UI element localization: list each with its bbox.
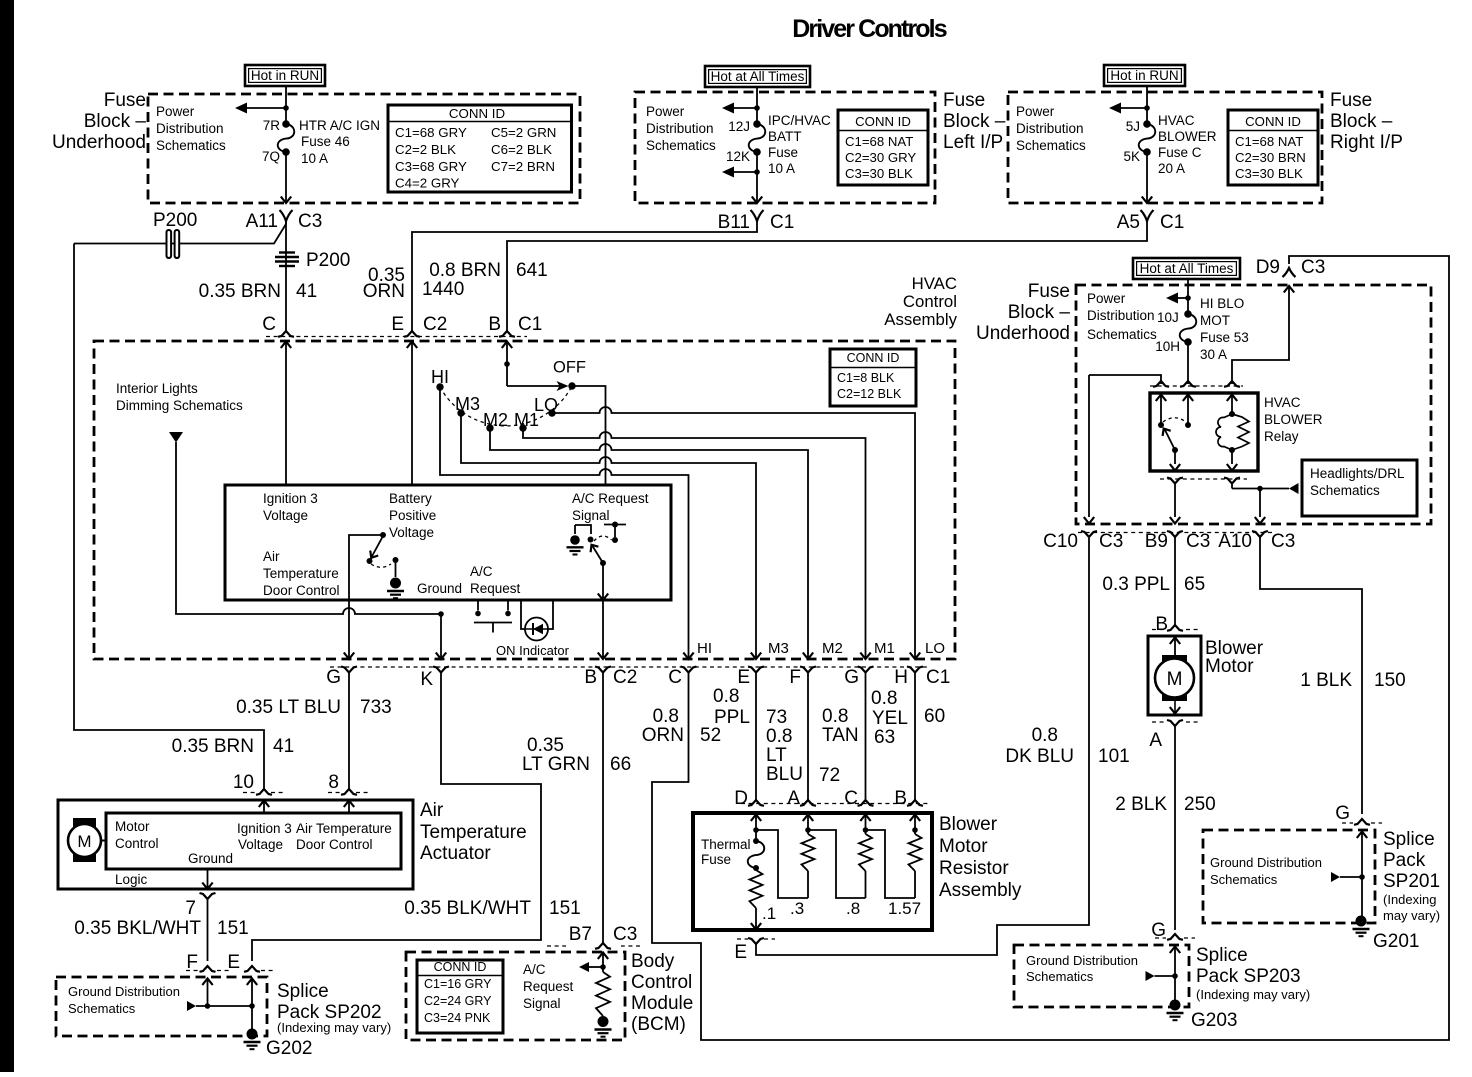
svg-text:C2: C2 <box>613 667 637 688</box>
svg-text:.8: .8 <box>846 899 860 918</box>
fuse block underhood dashed box <box>148 94 580 203</box>
svg-text:HVAC: HVAC <box>912 274 957 293</box>
svg-text:0.35 BRN: 0.35 BRN <box>172 736 254 757</box>
svg-text:BLOWER: BLOWER <box>1158 129 1217 144</box>
svg-text:Air Temperature: Air Temperature <box>296 821 392 836</box>
svg-text:G: G <box>844 667 859 688</box>
svg-text:0.3 PPL: 0.3 PPL <box>1102 574 1170 595</box>
ground G203 <box>1170 1000 1181 1011</box>
svg-text:0.8: 0.8 <box>871 688 897 709</box>
svg-text:Distribution: Distribution <box>156 121 224 136</box>
wire K ground 0.35 BLK/WHT <box>252 673 541 962</box>
relay coil <box>1227 395 1237 402</box>
connector B7 C3 <box>547 945 566 947</box>
svg-text:63: 63 <box>874 727 895 748</box>
svg-text:C4=2 GRY: C4=2 GRY <box>395 176 460 191</box>
dimming signal triangle <box>169 432 183 443</box>
pin 7 ground out <box>207 869 209 888</box>
svg-text:BLU: BLU <box>766 764 803 785</box>
svg-text:Fuse: Fuse <box>1330 90 1372 111</box>
wire fuse 53 to relay <box>1187 342 1189 384</box>
resistor D leg with thermal fuse <box>751 815 761 822</box>
svg-text:G201: G201 <box>1373 931 1419 952</box>
wire from Hot in RUN into fuse block <box>285 86 287 124</box>
svg-text:CONN ID: CONN ID <box>855 114 911 129</box>
svg-text:5K: 5K <box>1123 149 1140 164</box>
wire LO to pin H <box>552 407 915 658</box>
svg-text:K: K <box>420 669 433 690</box>
svg-text:B11: B11 <box>718 212 750 233</box>
svg-text:B: B <box>584 667 597 688</box>
CONN ID table right IP <box>1228 110 1318 185</box>
svg-text:Underhood: Underhood <box>976 323 1070 344</box>
wire C 0.8 ORN 52 big loop to D9 <box>652 256 1449 1040</box>
svg-text:Power: Power <box>156 104 195 119</box>
svg-text:0.35 BKL/WHT: 0.35 BKL/WHT <box>74 918 201 939</box>
svg-text:YEL: YEL <box>872 708 908 729</box>
svg-text:Headlights/DRL: Headlights/DRL <box>1310 466 1405 481</box>
svg-text:Ignition 3: Ignition 3 <box>237 821 292 836</box>
svg-text:0.35 BRN: 0.35 BRN <box>199 281 281 302</box>
svg-text:66: 66 <box>610 754 631 775</box>
wire A10 to SP201 1 BLK 150 <box>1260 537 1362 814</box>
connector D9 C3 <box>1283 268 1296 277</box>
svg-text:HTR A/C IGN: HTR A/C IGN <box>299 118 380 133</box>
wire OFF to pin B C2 vertical <box>572 386 606 485</box>
svg-text:1440: 1440 <box>422 279 464 300</box>
wire fuse 46 output <box>285 152 287 202</box>
dimming wire to K <box>176 442 441 614</box>
svg-text:0.8: 0.8 <box>766 726 792 747</box>
svg-text:Ignition 3: Ignition 3 <box>263 491 318 506</box>
svg-text:E: E <box>737 667 750 688</box>
svg-text:150: 150 <box>1374 670 1406 691</box>
svg-text:B7: B7 <box>569 924 592 945</box>
svg-text:0.8 BRN: 0.8 BRN <box>429 260 501 281</box>
svg-text:Hot at All Times: Hot at All Times <box>1140 261 1234 276</box>
connector A11 C3 <box>280 210 293 221</box>
svg-text:C1: C1 <box>1160 212 1184 233</box>
svg-text:Blower: Blower <box>939 814 998 835</box>
svg-text:C3: C3 <box>1099 531 1123 552</box>
svg-text:Schematics: Schematics <box>68 1001 136 1016</box>
ground G201 <box>1356 916 1367 927</box>
svg-text:A5: A5 <box>1117 212 1140 233</box>
fuse IPC/HVAC BATT 10A <box>753 120 761 128</box>
svg-text:52: 52 <box>700 725 721 746</box>
svg-text:HI: HI <box>697 640 712 657</box>
svg-text:Ground Distribution: Ground Distribution <box>1026 953 1138 968</box>
svg-text:5J: 5J <box>1126 119 1140 134</box>
svg-text:A10: A10 <box>1218 531 1252 552</box>
wire B C2 to BCM 0.35 LT GRN 66 <box>602 673 604 944</box>
svg-text:LO: LO <box>925 640 945 657</box>
svg-text:Hot at All Times: Hot at All Times <box>711 69 805 84</box>
svg-text:D: D <box>734 788 748 809</box>
svg-text:ORN: ORN <box>363 281 405 302</box>
relay connector row bottom <box>1160 478 1247 480</box>
svg-text:Schematics: Schematics <box>646 138 716 153</box>
svg-text:ON Indicator: ON Indicator <box>496 643 570 658</box>
svg-text:(Indexing may vary): (Indexing may vary) <box>1196 987 1310 1002</box>
svg-text:Power: Power <box>1087 291 1126 306</box>
svg-text:Motor: Motor <box>1205 656 1254 677</box>
blower motor symbol <box>1170 638 1180 645</box>
svg-text:Block –: Block – <box>1330 111 1393 132</box>
svg-text:Schematics: Schematics <box>156 138 226 153</box>
wire relay coil to A10 and headlights <box>1231 484 1233 489</box>
svg-text:H: H <box>894 667 908 688</box>
momentary A/C request button <box>477 600 479 611</box>
svg-text:Block –: Block – <box>84 111 147 132</box>
wire resistor E to relay C10 0.8 DK BLU 101 <box>756 538 1089 955</box>
svg-text:M2: M2 <box>822 640 843 657</box>
svg-text:Resistor: Resistor <box>939 858 1009 879</box>
ground G202 <box>251 1006 253 1029</box>
rotary contact M1 <box>519 424 526 431</box>
svg-text:ORN: ORN <box>642 725 684 746</box>
svg-text:F: F <box>789 667 801 688</box>
HVAC assembly dashed box <box>94 341 955 659</box>
svg-text:B: B <box>1155 614 1168 635</box>
svg-text:733: 733 <box>360 697 392 718</box>
svg-text:10: 10 <box>233 772 254 793</box>
wire blower motor to SP203 2 BLK 250 <box>1174 726 1176 930</box>
resistor 1.57 leg <box>910 815 920 822</box>
pin C (ignition feed) <box>278 331 294 337</box>
svg-text:12K: 12K <box>726 149 750 164</box>
staple D to A resistor <box>756 830 808 898</box>
CONN ID table BCM <box>417 960 503 1033</box>
svg-text:Ground Distribution: Ground Distribution <box>1210 855 1322 870</box>
junction dot on B wire <box>504 361 510 367</box>
wire relay common to C10 <box>1089 375 1161 384</box>
svg-text:Fuse: Fuse <box>104 90 146 111</box>
svg-text:Relay: Relay <box>1264 429 1299 444</box>
svg-text:C3: C3 <box>1271 531 1295 552</box>
svg-text:Assembly: Assembly <box>939 880 1022 901</box>
svg-text:41: 41 <box>273 736 294 757</box>
pin F out <box>800 667 816 673</box>
svg-text:.3: .3 <box>790 899 804 918</box>
svg-text:101: 101 <box>1098 746 1130 767</box>
ground symbol (door control) <box>395 560 397 577</box>
svg-text:Assembly: Assembly <box>884 310 957 329</box>
pin A10 C3 <box>1252 531 1268 537</box>
ground in BCM <box>598 1016 609 1027</box>
svg-text:10 A: 10 A <box>301 151 328 166</box>
HVAC inner control box <box>225 485 671 600</box>
rotary contact LO <box>548 409 555 416</box>
svg-text:C6=2 BLK: C6=2 BLK <box>491 142 552 157</box>
pin C out <box>681 667 697 673</box>
pin 8 connector <box>328 792 342 794</box>
svg-text:BATT: BATT <box>768 129 802 144</box>
connector row HVAC bottom <box>330 666 930 668</box>
svg-text:.1: .1 <box>762 904 776 923</box>
svg-text:Left I/P: Left I/P <box>943 132 1003 153</box>
svg-text:may vary): may vary) <box>1383 908 1440 923</box>
svg-text:C3=68 GRY: C3=68 GRY <box>395 159 467 174</box>
resistor .3 leg <box>803 815 813 822</box>
svg-text:Temperature: Temperature <box>263 566 339 581</box>
svg-text:G: G <box>326 667 341 688</box>
wire fuse C output <box>1146 152 1148 202</box>
rotary contact OFF <box>568 382 575 389</box>
svg-text:Air: Air <box>263 549 280 564</box>
svg-text:Module: Module <box>631 993 693 1014</box>
svg-text:Request: Request <box>470 581 521 596</box>
svg-text:Fuse: Fuse <box>943 90 985 111</box>
svg-text:0.8: 0.8 <box>653 706 679 727</box>
svg-text:C3=24 PNK: C3=24 PNK <box>424 1011 491 1025</box>
wire A5 to HVAC B C1 0.8 BRN 641 <box>507 221 1147 331</box>
svg-text:Logic: Logic <box>115 872 148 887</box>
svg-text:10J: 10J <box>1157 310 1179 325</box>
svg-text:DK BLU: DK BLU <box>1005 746 1074 767</box>
splice pack SP202 dashed box <box>56 977 267 1036</box>
blower motor box <box>1148 636 1201 715</box>
staple A to C resistor <box>808 830 866 898</box>
svg-text:OFF: OFF <box>553 359 586 377</box>
CONN ID table underhood left <box>388 105 572 192</box>
connector G SP203 <box>1155 937 1166 939</box>
svg-text:CONN ID: CONN ID <box>847 351 900 365</box>
svg-text:C3: C3 <box>1301 257 1325 278</box>
pin K out <box>433 667 449 673</box>
svg-text:7R: 7R <box>263 118 281 133</box>
svg-text:P200: P200 <box>153 210 197 231</box>
pin E out <box>748 667 764 673</box>
rotary dial dashed arc <box>440 386 572 426</box>
fuse C HVAC BLOWER 20A <box>1143 120 1151 128</box>
svg-text:1.57: 1.57 <box>888 899 921 918</box>
A/C switch arm <box>600 560 606 566</box>
Hot in RUN box (left) <box>245 65 325 86</box>
Hot at All Times box (underhood) <box>1133 258 1240 279</box>
svg-text:B: B <box>894 788 907 809</box>
svg-text:(BCM): (BCM) <box>631 1014 686 1035</box>
Hot in RUN box (right IP) <box>1104 65 1185 86</box>
svg-text:10 A: 10 A <box>768 161 795 176</box>
svg-text:Block –: Block – <box>943 111 1006 132</box>
fuse 46 HTR A/C IGN 10A <box>282 120 290 128</box>
svg-text:1 BLK: 1 BLK <box>1300 670 1352 691</box>
wire D9 to relay coil <box>1284 286 1294 293</box>
svg-text:E: E <box>391 314 404 335</box>
pin C (resistor) <box>858 800 874 806</box>
wire HI to pin C <box>440 387 689 658</box>
body control module dashed box <box>406 952 625 1040</box>
connector G SP201 <box>1342 822 1353 824</box>
svg-text:Power: Power <box>646 104 685 119</box>
relay connector row top <box>1150 385 1243 387</box>
svg-text:20 A: 20 A <box>1158 161 1185 176</box>
svg-text:7: 7 <box>185 898 196 919</box>
svg-text:Splice: Splice <box>1196 945 1248 966</box>
pin E C2 (battery feed) <box>404 331 420 337</box>
BCM internal pull-up <box>598 953 608 960</box>
inline connector P200 <box>167 230 172 258</box>
wire K ground output <box>440 614 442 658</box>
svg-text:M1: M1 <box>874 640 895 657</box>
rotary contact HI <box>436 383 443 390</box>
SP203 internal wire <box>1170 947 1180 954</box>
svg-text:Pack SP203: Pack SP203 <box>1196 966 1301 987</box>
svg-text:G: G <box>1335 803 1350 824</box>
svg-text:C7=2 BRN: C7=2 BRN <box>491 159 555 174</box>
svg-text:Pack: Pack <box>1383 850 1426 871</box>
wire hot at all times to fuse 53 <box>1187 278 1189 314</box>
pin E resistor out <box>748 938 764 944</box>
svg-text:Body: Body <box>631 951 675 972</box>
svg-text:A: A <box>1149 730 1162 751</box>
wire H to resistor B 0.8 YEL 60 <box>914 673 916 801</box>
svg-text:C: C <box>844 788 858 809</box>
pin G out <box>341 667 357 673</box>
svg-text:Block –: Block – <box>1008 302 1071 323</box>
svg-text:BLOWER: BLOWER <box>1264 412 1323 427</box>
wire G to resistor C 0.8 TAN 63 <box>865 673 867 801</box>
svg-text:Hot in RUN: Hot in RUN <box>251 68 319 83</box>
svg-text:41: 41 <box>296 281 317 302</box>
pin 10 connector <box>243 792 257 794</box>
svg-text:Splice: Splice <box>277 981 329 1002</box>
svg-text:C1=68 GRY: C1=68 GRY <box>395 125 467 140</box>
svg-text:0.8: 0.8 <box>822 706 848 727</box>
svg-text:Fuse C: Fuse C <box>1158 145 1202 160</box>
svg-text:Fuse 53: Fuse 53 <box>1200 330 1249 345</box>
svg-text:(Indexing: (Indexing <box>1383 892 1436 907</box>
svg-text:C5=2 GRN: C5=2 GRN <box>491 125 556 140</box>
svg-text:C3=30 BLK: C3=30 BLK <box>1235 166 1303 181</box>
svg-text:7Q: 7Q <box>262 149 280 164</box>
wire from Hot in RUN right <box>1146 86 1148 124</box>
svg-text:LT GRN: LT GRN <box>522 754 590 775</box>
Hot at All Times box (left IP) <box>705 66 810 87</box>
motor symbol <box>73 818 96 829</box>
svg-text:73: 73 <box>766 707 787 728</box>
svg-text:C3: C3 <box>298 211 322 232</box>
svg-text:Voltage: Voltage <box>238 837 283 852</box>
air temp door control switch <box>380 532 386 538</box>
svg-text:CONN ID: CONN ID <box>434 960 487 974</box>
svg-text:Request: Request <box>523 979 574 994</box>
svg-text:HI: HI <box>431 367 449 387</box>
headlights DRL schematics box <box>1302 460 1417 516</box>
svg-text:Voltage: Voltage <box>263 508 308 523</box>
svg-text:65: 65 <box>1184 574 1205 595</box>
svg-text:Splice: Splice <box>1383 829 1435 850</box>
wire G dimming output <box>348 600 350 658</box>
underhood fuse block dashed box <box>1076 285 1431 524</box>
svg-text:8: 8 <box>328 772 339 793</box>
svg-text:Control: Control <box>903 292 957 311</box>
svg-text:HVAC: HVAC <box>1264 395 1301 410</box>
fuse block right IP dashed box <box>1008 92 1322 203</box>
left wire to motor control 0.35 BRN 41 <box>74 244 264 790</box>
wire M2 to pin F <box>490 428 808 658</box>
connector B11 C1 <box>751 210 764 221</box>
svg-text:Distribution: Distribution <box>1087 308 1155 323</box>
svg-text:HI BLO: HI BLO <box>1200 296 1244 311</box>
svg-text:Signal: Signal <box>523 996 561 1011</box>
underhood connector row bottom <box>1078 532 1272 534</box>
svg-text:Temperature: Temperature <box>420 822 527 843</box>
svg-text:72: 72 <box>819 765 840 786</box>
fuse 53 HI BLO MOT 30A <box>1184 310 1192 318</box>
splice pack SP203 dashed box <box>1014 945 1189 1007</box>
svg-text:Fuse: Fuse <box>1028 281 1070 302</box>
svg-text:0.35: 0.35 <box>527 735 564 756</box>
arrow left (12J feed) <box>734 107 757 109</box>
svg-text:A/C Request: A/C Request <box>572 491 649 506</box>
svg-text:B: B <box>488 314 501 335</box>
svg-text:G202: G202 <box>266 1038 312 1059</box>
svg-text:C2: C2 <box>423 314 447 335</box>
svg-text:C1: C1 <box>518 314 542 335</box>
svg-text:Fuse: Fuse <box>701 852 731 867</box>
svg-text:Door Control: Door Control <box>296 837 373 852</box>
svg-text:Ground: Ground <box>188 851 233 866</box>
wire M3 to pin E <box>461 413 756 658</box>
svg-text:Battery: Battery <box>389 491 432 506</box>
wire M1 to pin G <box>523 428 866 658</box>
svg-text:CONN ID: CONN ID <box>1245 114 1301 129</box>
pin D <box>748 800 764 806</box>
svg-text:M3: M3 <box>768 640 789 657</box>
staple C to B resistor <box>866 830 916 898</box>
svg-text:Right I/P: Right I/P <box>1330 132 1403 153</box>
svg-text:Ground: Ground <box>417 581 462 596</box>
connector row HVAC top <box>266 336 527 338</box>
ON indicator LED <box>521 600 525 629</box>
svg-text:Schematics: Schematics <box>1210 872 1278 887</box>
wire B9 to blower motor 0.3 PPL 65 <box>1174 537 1176 625</box>
pin C10 C3 <box>1081 531 1097 537</box>
svg-text:A: A <box>787 788 800 809</box>
CONN ID table left IP <box>838 110 928 185</box>
svg-text:Motor: Motor <box>939 836 988 857</box>
svg-text:Air: Air <box>420 800 444 821</box>
svg-text:C1: C1 <box>926 667 950 688</box>
svg-text:C2=30 BRN: C2=30 BRN <box>1235 150 1306 165</box>
svg-text:151: 151 <box>217 918 249 939</box>
SP202 internal wires <box>202 979 212 986</box>
svg-text:C10: C10 <box>1043 531 1078 552</box>
pin G out (blower) <box>858 667 874 673</box>
svg-text:M2: M2 <box>483 410 508 430</box>
junction dot <box>283 105 289 111</box>
svg-text:M3: M3 <box>455 394 480 414</box>
wire relay output to B9 <box>1174 484 1176 518</box>
connector B blower motor <box>1152 629 1164 631</box>
svg-text:A/C: A/C <box>470 564 493 579</box>
wire 0.35 BRN 41 from A11 down <box>285 221 287 331</box>
blower motor resistor assembly box <box>693 813 932 930</box>
rotary contact M3 <box>457 409 464 416</box>
svg-text:Schematics: Schematics <box>1026 969 1094 984</box>
svg-text:C1=16 GRY: C1=16 GRY <box>424 977 492 991</box>
pin B (resistor) <box>907 800 923 806</box>
svg-text:Signal: Signal <box>572 508 610 523</box>
svg-text:Control: Control <box>115 836 159 851</box>
svg-text:Thermal: Thermal <box>701 837 751 852</box>
svg-text:Schematics: Schematics <box>1087 327 1157 342</box>
pin H out <box>907 667 923 673</box>
SP201 internal wire <box>1357 832 1367 839</box>
svg-text:Ground Distribution: Ground Distribution <box>68 984 180 999</box>
